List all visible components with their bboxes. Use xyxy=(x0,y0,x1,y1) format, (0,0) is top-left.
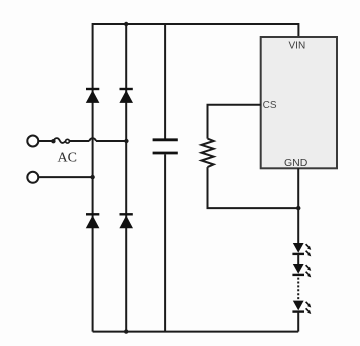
wire bridge leg 1 (vertical, top rail to bottom rail) xyxy=(92,23,94,332)
capacitor xyxy=(153,140,178,153)
wire bottom rail xyxy=(93,331,299,333)
wire dashed (continuation of LED string) xyxy=(297,278,299,300)
terminal AC line 1 xyxy=(27,136,38,147)
LED 3 xyxy=(292,301,311,314)
node resistor / GND junction xyxy=(296,206,300,210)
wire bridge leg 2 (vertical) xyxy=(125,24,127,332)
wire capacitor bottom leg xyxy=(164,154,166,331)
wire LED1 to LED2 xyxy=(297,254,299,264)
diode bridge top-right xyxy=(119,89,133,103)
wire AC bottom xyxy=(38,176,92,178)
svg-text:CS: CS xyxy=(263,100,277,111)
wire resistor bottom to GND node xyxy=(208,167,299,208)
svg-text:GND: GND xyxy=(284,157,308,169)
wire VIN drop xyxy=(297,23,299,38)
svg-text:AC: AC xyxy=(58,151,77,166)
node bottom rail / leg2 junction xyxy=(124,329,128,333)
wire hop over leg 1 xyxy=(89,138,96,141)
svg-text:VIN: VIN xyxy=(289,41,306,52)
node AC top / leg2 junction xyxy=(124,139,128,143)
fuse xyxy=(51,138,69,143)
terminal AC line 2 xyxy=(27,172,38,183)
node top rail / leg2 junction xyxy=(124,22,128,26)
wire AC top (terminal to fuse) xyxy=(38,140,51,142)
wire CS pin to resistor xyxy=(208,105,261,139)
diode bridge top-left xyxy=(86,89,100,103)
node AC bottom / leg1 junction xyxy=(90,175,94,179)
wire top rail xyxy=(93,23,299,25)
wire AC top (hop to leg2) xyxy=(96,140,127,142)
LED 1 xyxy=(292,243,311,256)
wire LED3 to bottom rail xyxy=(297,312,299,332)
wire capacitor top leg xyxy=(164,24,166,139)
diode bridge bottom-left xyxy=(86,214,100,228)
diode bridge bottom-right xyxy=(119,214,133,228)
LED 2 xyxy=(292,264,311,277)
wire GND pin down to LED string xyxy=(297,168,299,243)
resistor (CS sense) xyxy=(202,139,214,168)
IC U1 (LED driver) xyxy=(261,37,337,168)
wire AC top (fuse to hop) xyxy=(69,140,89,142)
